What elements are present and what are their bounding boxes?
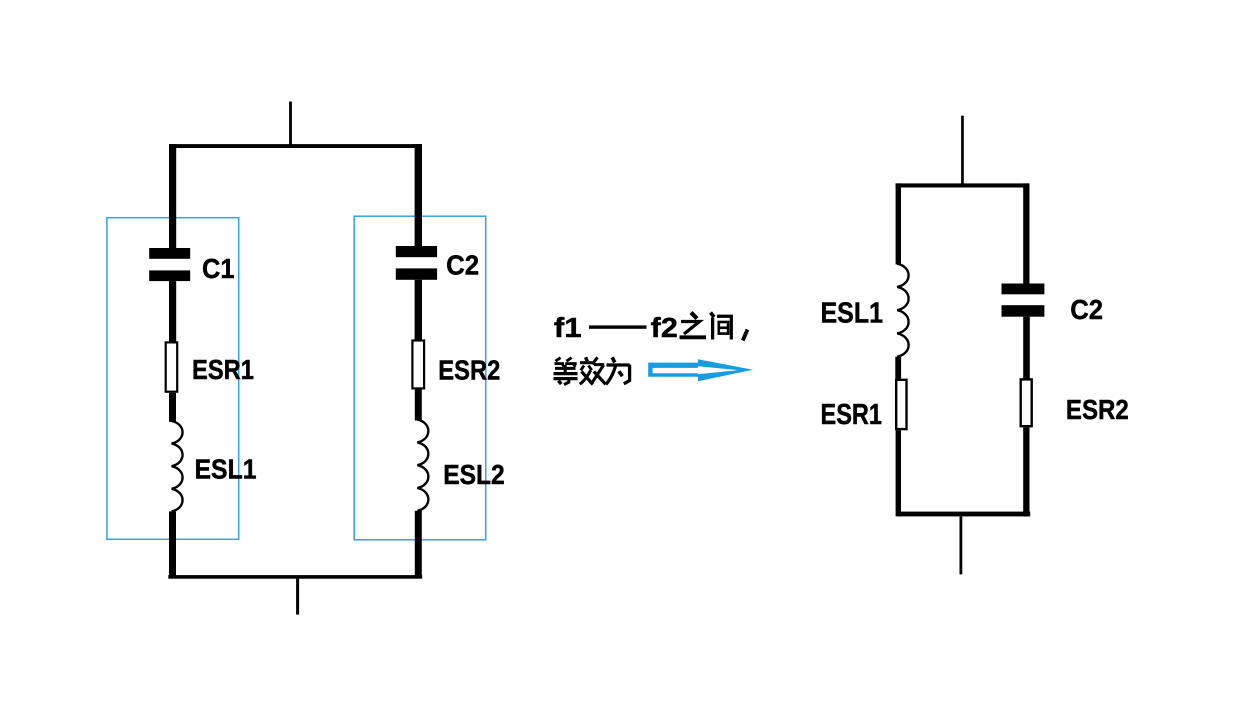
resistor ESR1 xyxy=(166,342,178,391)
inductor ESL2 left circuit xyxy=(417,420,428,511)
arrow equivalence xyxy=(648,359,753,381)
wire: bottom stub right circuit xyxy=(960,516,963,574)
wire: left branch from top to C1 xyxy=(169,144,176,248)
wire: ESR1 to ESL1 xyxy=(169,393,176,422)
box around C2 branch xyxy=(354,216,486,540)
wire: C2 to ESR2 right circuit xyxy=(1023,317,1030,380)
svg-text:ESR2: ESR2 xyxy=(438,355,500,386)
inductor ESL1 left circuit xyxy=(172,421,183,511)
wire: bottom horizontal right circuit xyxy=(897,512,1030,517)
capacitor C2 right circuit xyxy=(1002,284,1045,317)
wire: ESL2 to bottom xyxy=(415,511,422,577)
resistor ESR2 left circuit xyxy=(412,341,424,389)
wire: ESL1 to ESR1 right circuit xyxy=(895,357,901,380)
wire: right circuit right branch top segment xyxy=(1023,183,1029,284)
svg-text:C1: C1 xyxy=(202,253,235,284)
fullwidth comma xyxy=(743,330,748,341)
wire: bottom stub left circuit xyxy=(296,579,299,615)
svg-text:ESL1: ESL1 xyxy=(821,298,884,330)
box around C1 branch xyxy=(107,218,239,540)
svg-text:f1: f1 xyxy=(554,312,582,343)
svg-text:ESR1: ESR1 xyxy=(192,354,254,385)
hanzi jian xyxy=(711,313,732,340)
wire: ESR2 to bottom right circuit xyxy=(1023,427,1029,516)
inductor ESL1 right circuit xyxy=(897,264,908,357)
wire: top horizontal right circuit xyxy=(896,183,1029,187)
capacitor C2 left circuit xyxy=(396,246,437,280)
wire: top stub right circuit xyxy=(961,116,964,186)
svg-text:ESL1: ESL1 xyxy=(195,454,257,485)
dash between f1 and f2 xyxy=(589,325,647,328)
wire: bottom horizontal left circuit xyxy=(168,575,422,579)
wire: top stub left circuit xyxy=(289,102,292,147)
wire: right circuit left branch top segment xyxy=(896,183,901,264)
svg-text:ESL2: ESL2 xyxy=(443,459,505,490)
hanzi zhi xyxy=(680,313,707,338)
svg-text:C2: C2 xyxy=(1070,294,1103,325)
hanzi wei xyxy=(606,357,630,384)
wire: C2 to ESR2 xyxy=(415,280,422,341)
hanzi xiao xyxy=(580,357,606,384)
wire: C1 to ESR1 xyxy=(169,281,176,342)
wire: right branch from top to C2 xyxy=(415,144,422,246)
svg-text:ESR1: ESR1 xyxy=(821,399,883,431)
resistor ESR2 right circuit xyxy=(1021,379,1032,426)
wire: ESR1 to bottom right circuit xyxy=(896,430,901,516)
wire: ESR2 to ESL2 xyxy=(415,390,422,421)
capacitor C1 xyxy=(149,248,190,281)
svg-text:C2: C2 xyxy=(446,250,479,281)
wire: top horizontal left circuit xyxy=(169,144,421,148)
resistor ESR1 right circuit xyxy=(896,380,906,429)
svg-text:f2: f2 xyxy=(651,312,678,343)
hanzi deng xyxy=(554,358,578,385)
wire: ESL1 to bottom xyxy=(169,511,176,576)
svg-text:ESR2: ESR2 xyxy=(1066,394,1129,425)
